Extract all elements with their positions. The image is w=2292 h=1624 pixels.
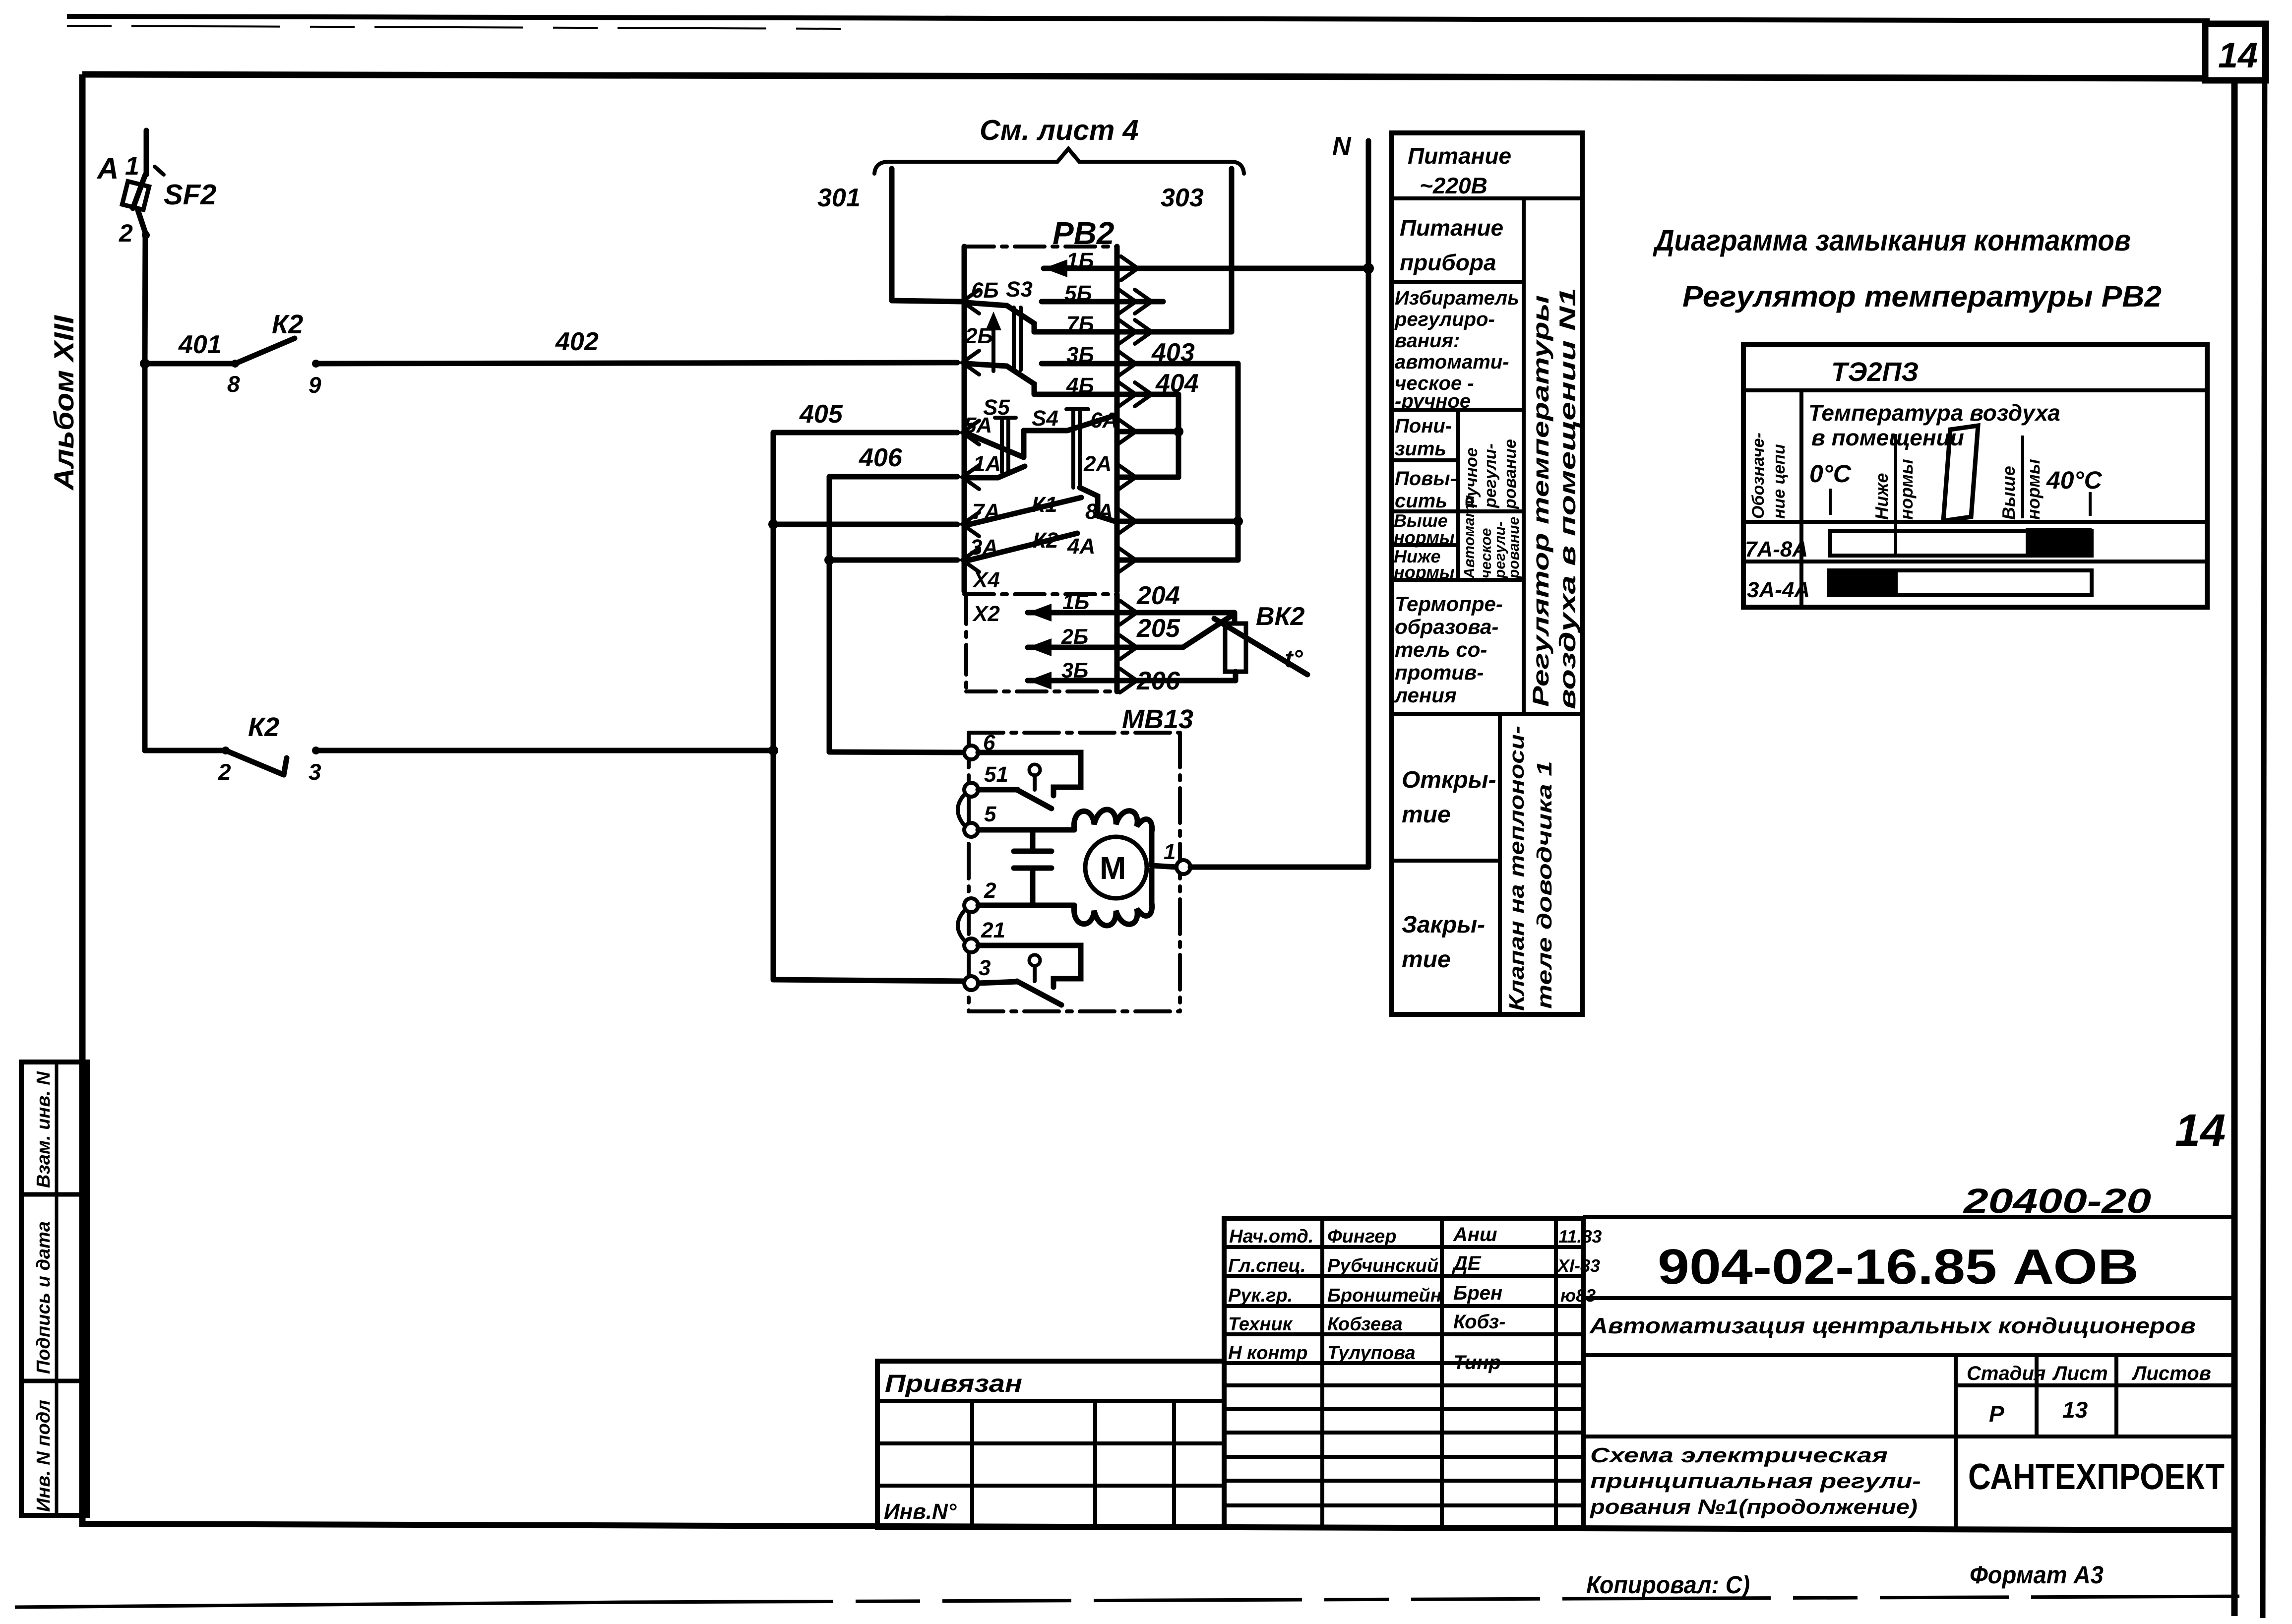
pin 6 bbox=[964, 746, 978, 759]
coupling 2-21 bbox=[958, 910, 965, 941]
pin 51 bbox=[964, 783, 978, 797]
svg-text:Взам. инв. N: Взам. инв. N bbox=[33, 1071, 54, 1188]
limit switch S1 loop bbox=[978, 752, 1081, 796]
capacitor bbox=[1030, 830, 1036, 851]
svg-text:402: 402 bbox=[555, 327, 599, 356]
svg-text:~220В: ~220В bbox=[1420, 173, 1487, 198]
svg-text:А: А bbox=[96, 152, 119, 185]
svg-text:Формат А3: Формат А3 bbox=[1970, 1561, 2104, 1589]
svg-text:21: 21 bbox=[981, 918, 1005, 942]
svg-text:204: 204 bbox=[1136, 581, 1180, 610]
svg-text:205: 205 bbox=[1136, 614, 1180, 643]
pin 3 bbox=[964, 976, 978, 990]
pin 2 bbox=[964, 898, 978, 912]
svg-text:Рубчинский: Рубчинский bbox=[1327, 1255, 1438, 1276]
svg-text:51: 51 bbox=[984, 762, 1008, 787]
svg-text:Диаграмма замыкания контактов: Диаграмма замыкания контактов bbox=[1652, 224, 2131, 257]
svg-text:нормы: нормы bbox=[2023, 459, 2044, 520]
svg-text:прибора: прибора bbox=[1400, 250, 1496, 275]
circuit breaker SF2 bbox=[144, 130, 149, 175]
MB13 dash-dot boundary bbox=[969, 731, 1180, 735]
wire 7A row bbox=[773, 522, 957, 527]
svg-text:регули-: регули- bbox=[1481, 443, 1500, 508]
svg-text:4А: 4А bbox=[1067, 534, 1095, 559]
svg-text:Инв. N подл: Инв. N подл bbox=[33, 1400, 54, 1512]
margin stamp table bbox=[21, 1062, 87, 1515]
svg-text:-ручное: -ручное bbox=[1395, 390, 1471, 412]
svg-text:Гл.спец.: Гл.спец. bbox=[1228, 1255, 1306, 1276]
svg-text:Копировал: С): Копировал: С) bbox=[1586, 1571, 1750, 1599]
pin 5 bbox=[964, 823, 978, 837]
svg-text:Инв.N°: Инв.N° bbox=[884, 1499, 957, 1524]
svg-text:ДЕ: ДЕ bbox=[1452, 1252, 1482, 1274]
contact diagram table bbox=[1743, 345, 2207, 607]
svg-text:Н контр: Н контр bbox=[1228, 1343, 1307, 1364]
signature table bbox=[1224, 1218, 1583, 1528]
wire down to 401 junction bbox=[145, 235, 145, 364]
SF2 BRANCH bbox=[96, 130, 968, 981]
svg-text:Рук.гр.: Рук.гр. bbox=[1228, 1285, 1293, 1306]
svg-text:Повы-: Повы- bbox=[1395, 468, 1457, 490]
svg-text:К2: К2 bbox=[248, 712, 279, 742]
svg-text:регулиро-: регулиро- bbox=[1394, 309, 1495, 330]
svg-text:ВК2: ВК2 bbox=[1256, 602, 1305, 631]
svg-text:S3: S3 bbox=[1006, 277, 1033, 302]
svg-text:тие: тие bbox=[1402, 802, 1451, 828]
wire 3A row bbox=[829, 558, 957, 563]
switch S3 lower blade bbox=[966, 364, 1034, 394]
TITLE BLOCK bbox=[877, 1182, 2234, 1599]
svg-text:САНТЕХПРОЕКТ: САНТЕХПРОЕКТ bbox=[1968, 1456, 2225, 1497]
svg-text:Закры-: Закры- bbox=[1402, 912, 1485, 938]
RIGHT DIAGRAM bbox=[1652, 224, 2207, 607]
svg-text:2А: 2А bbox=[1083, 452, 1112, 476]
svg-text:Нач.отд.: Нач.отд. bbox=[1229, 1226, 1313, 1247]
svg-text:7А-8А: 7А-8А bbox=[1745, 537, 1808, 562]
svg-text:SF2: SF2 bbox=[164, 179, 216, 211]
svg-text:2: 2 bbox=[984, 878, 996, 903]
svg-text:К2: К2 bbox=[272, 310, 303, 339]
relay contact K2 (2-3) bbox=[222, 747, 230, 754]
PB2 BLOCK bbox=[817, 114, 1374, 867]
svg-text:1: 1 bbox=[125, 152, 139, 181]
wire 401 bbox=[145, 361, 235, 367]
wire 406 bbox=[829, 474, 957, 480]
svg-text:Избиратель: Избиратель bbox=[1395, 287, 1519, 309]
svg-text:13: 13 bbox=[2062, 1397, 2088, 1423]
svg-text:принципиальная регули-: принципиальная регули- bbox=[1590, 1469, 1921, 1493]
svg-text:Питание: Питание bbox=[1408, 143, 1511, 169]
svg-text:Регулятор температуры РВ2: Регулятор температуры РВ2 bbox=[1682, 280, 2162, 313]
svg-text:Тинр: Тинр bbox=[1453, 1352, 1501, 1374]
svg-text:11.83: 11.83 bbox=[1558, 1226, 1602, 1247]
svg-text:Кобзева: Кобзева bbox=[1327, 1314, 1403, 1335]
svg-text:зить: зить bbox=[1395, 438, 1446, 460]
LEFT MARGIN bbox=[21, 314, 87, 1515]
svg-text:Температура воздуха: Температура воздуха bbox=[1808, 400, 2060, 426]
svg-text:Бронштейн: Бронштейн bbox=[1327, 1285, 1442, 1306]
svg-text:нормы: нормы bbox=[1896, 459, 1917, 520]
pin 21 bbox=[964, 938, 978, 952]
svg-text:М: М bbox=[1100, 850, 1126, 886]
svg-text:14: 14 bbox=[2175, 1105, 2226, 1156]
svg-text:рование: рование bbox=[1501, 439, 1520, 509]
svg-text:1А: 1А bbox=[973, 452, 1001, 476]
vertical A (405/7A/K2/MB13-3 net) bbox=[771, 433, 776, 980]
svg-text:теле доводчика 1: теле доводчика 1 bbox=[1533, 761, 1556, 1009]
svg-text:рование: рование bbox=[1506, 517, 1522, 579]
coupling 51-5 bbox=[958, 794, 965, 826]
svg-text:14: 14 bbox=[2218, 36, 2258, 75]
svg-text:0°С: 0°С bbox=[1809, 460, 1852, 488]
svg-text:Тулупова: Тулупова bbox=[1327, 1343, 1416, 1364]
svg-text:Откры-: Откры- bbox=[1402, 767, 1496, 793]
sheet bottom line bbox=[15, 1602, 625, 1607]
svg-text:Х2: Х2 bbox=[972, 602, 1000, 626]
svg-text:Автоматизация центральных конд: Автоматизация центральных кондиционеров bbox=[1589, 1313, 2196, 1338]
svg-text:воздуха в помещении N1: воздуха в помещении N1 bbox=[1554, 288, 1580, 709]
svg-text:Регулятор температуры: Регулятор температуры bbox=[1528, 295, 1553, 707]
svg-text:Р: Р bbox=[1989, 1401, 2004, 1427]
wire from K2 to vertical A bbox=[316, 748, 773, 753]
svg-text:рования №1(продолжение): рования №1(продолжение) bbox=[1590, 1495, 1918, 1518]
node N rail bbox=[1363, 263, 1374, 274]
svg-text:2: 2 bbox=[218, 759, 231, 785]
motor M bbox=[1085, 837, 1147, 898]
svg-text:См. лист 4: См. лист 4 bbox=[980, 114, 1139, 146]
switch S3 upper blade bbox=[966, 303, 1034, 332]
svg-text:S4: S4 bbox=[1032, 406, 1058, 431]
svg-text:20400-20: 20400-20 bbox=[1962, 1182, 2151, 1220]
wire 405 bbox=[773, 430, 957, 436]
frame border bbox=[82, 74, 2208, 78]
document code cell bbox=[1583, 1215, 2234, 1219]
svg-text:303: 303 bbox=[1161, 184, 1204, 212]
svg-text:Клапан на теплоноси-: Клапан на теплоноси- bbox=[1505, 726, 1528, 1011]
signal table frame bbox=[1392, 133, 1582, 1014]
sheet right edge bbox=[2263, 24, 2265, 1618]
limit switch upper bbox=[1029, 764, 1040, 775]
relay contact K2 (8-9) bbox=[231, 360, 239, 368]
svg-text:40°С: 40°С bbox=[2046, 466, 2103, 494]
svg-text:Схема электрическая: Схема электрическая bbox=[1590, 1443, 1888, 1467]
svg-text:ние цепи: ние цепи bbox=[1770, 444, 1789, 519]
setpoint parallelogram bbox=[1943, 426, 1978, 521]
motor M windings bbox=[1074, 810, 1152, 843]
svg-text:ТЭ2ПЗ: ТЭ2ПЗ bbox=[1831, 357, 1919, 387]
limit switch lower loop bbox=[978, 945, 1081, 987]
svg-text:Подпись и дата: Подпись и дата bbox=[33, 1221, 54, 1374]
svg-text:N: N bbox=[1332, 132, 1352, 161]
svg-text:3А-4А: 3А-4А bbox=[1747, 578, 1810, 602]
brace bbox=[874, 149, 1244, 174]
svg-text:t°: t° bbox=[1285, 645, 1303, 673]
svg-text:Техник: Техник bbox=[1228, 1314, 1293, 1335]
svg-text:тель со-: тель со- bbox=[1395, 638, 1487, 661]
svg-text:8А: 8А bbox=[1085, 500, 1113, 524]
MIDDLE TABLE bbox=[1392, 133, 1582, 1014]
svg-text:Ниже: Ниже bbox=[1871, 473, 1892, 520]
svg-text:нормы: нормы bbox=[1394, 527, 1455, 548]
svg-text:3: 3 bbox=[309, 759, 321, 785]
svg-text:5: 5 bbox=[984, 802, 996, 826]
svg-text:вания:: вания: bbox=[1395, 330, 1460, 352]
svg-text:904-02-16.85 АОВ: 904-02-16.85 АОВ bbox=[1658, 1239, 2139, 1295]
svg-text:Анш: Анш bbox=[1453, 1224, 1497, 1246]
svg-text:автомати-: автомати- bbox=[1395, 351, 1509, 373]
stage/sheet cells bbox=[1954, 1355, 1958, 1528]
svg-text:Кобз-: Кобз- bbox=[1453, 1311, 1505, 1333]
svg-text:МВ13: МВ13 bbox=[1122, 704, 1193, 734]
svg-text:тие: тие bbox=[1402, 946, 1451, 973]
svg-text:Стадия: Стадия bbox=[1967, 1363, 2045, 1384]
svg-text:2: 2 bbox=[119, 219, 133, 247]
pin 1 bbox=[1177, 860, 1190, 874]
svg-text:Альбом ХIII: Альбом ХIII bbox=[48, 314, 79, 491]
svg-text:XI-83: XI-83 bbox=[1556, 1255, 1600, 1276]
svg-text:Обозначе-: Обозначе- bbox=[1749, 433, 1768, 519]
vertical B (406/3A/MB13-6 net) bbox=[827, 477, 832, 752]
svg-text:9: 9 bbox=[309, 372, 321, 398]
X2 / BK2 bbox=[964, 568, 1307, 695]
MB13 bbox=[958, 704, 1368, 1011]
svg-text:ю83: ю83 bbox=[1560, 1285, 1596, 1306]
svg-text:Термопре-: Термопре- bbox=[1395, 592, 1503, 616]
svg-text:Лист: Лист bbox=[2052, 1363, 2108, 1384]
svg-text:Автомати: Автомати bbox=[1461, 495, 1478, 579]
svg-text:Пони-: Пони- bbox=[1395, 415, 1452, 437]
svg-text:3: 3 bbox=[979, 956, 991, 980]
sheet top double line bbox=[67, 16, 2210, 21]
wire 402 bbox=[316, 363, 957, 364]
svg-text:нормы: нормы bbox=[1394, 562, 1455, 582]
svg-text:Листов: Листов bbox=[2131, 1363, 2211, 1384]
PB2 boundary dash-dot bbox=[964, 245, 1117, 249]
wire down to lower K2 bbox=[142, 364, 148, 750]
svg-text:401: 401 bbox=[178, 330, 222, 359]
svg-text:406: 406 bbox=[859, 443, 903, 472]
svg-text:Выше: Выше bbox=[1998, 466, 2019, 520]
svg-text:8: 8 bbox=[227, 371, 240, 397]
svg-text:1: 1 bbox=[1164, 840, 1176, 864]
svg-text:Х4: Х4 bbox=[972, 568, 1000, 592]
svg-text:в помещении: в помещении bbox=[1811, 425, 1964, 450]
S3 linkage bars bbox=[1012, 308, 1016, 370]
svg-text:405: 405 bbox=[799, 400, 843, 429]
svg-text:Питание: Питание bbox=[1400, 215, 1503, 241]
svg-text:301: 301 bbox=[817, 184, 861, 212]
svg-text:Фингер: Фингер bbox=[1327, 1226, 1397, 1247]
sheet number box 14 (top right) bbox=[2205, 24, 2266, 80]
project binding box bbox=[877, 1361, 1224, 1528]
svg-text:Привязан: Привязан bbox=[885, 1370, 1022, 1397]
svg-text:против-: против- bbox=[1395, 661, 1484, 684]
svg-text:Брен: Брен bbox=[1453, 1282, 1502, 1304]
svg-text:образова-: образова- bbox=[1395, 615, 1498, 638]
svg-text:ления: ления bbox=[1394, 684, 1457, 707]
svg-text:сить: сить bbox=[1395, 490, 1447, 512]
